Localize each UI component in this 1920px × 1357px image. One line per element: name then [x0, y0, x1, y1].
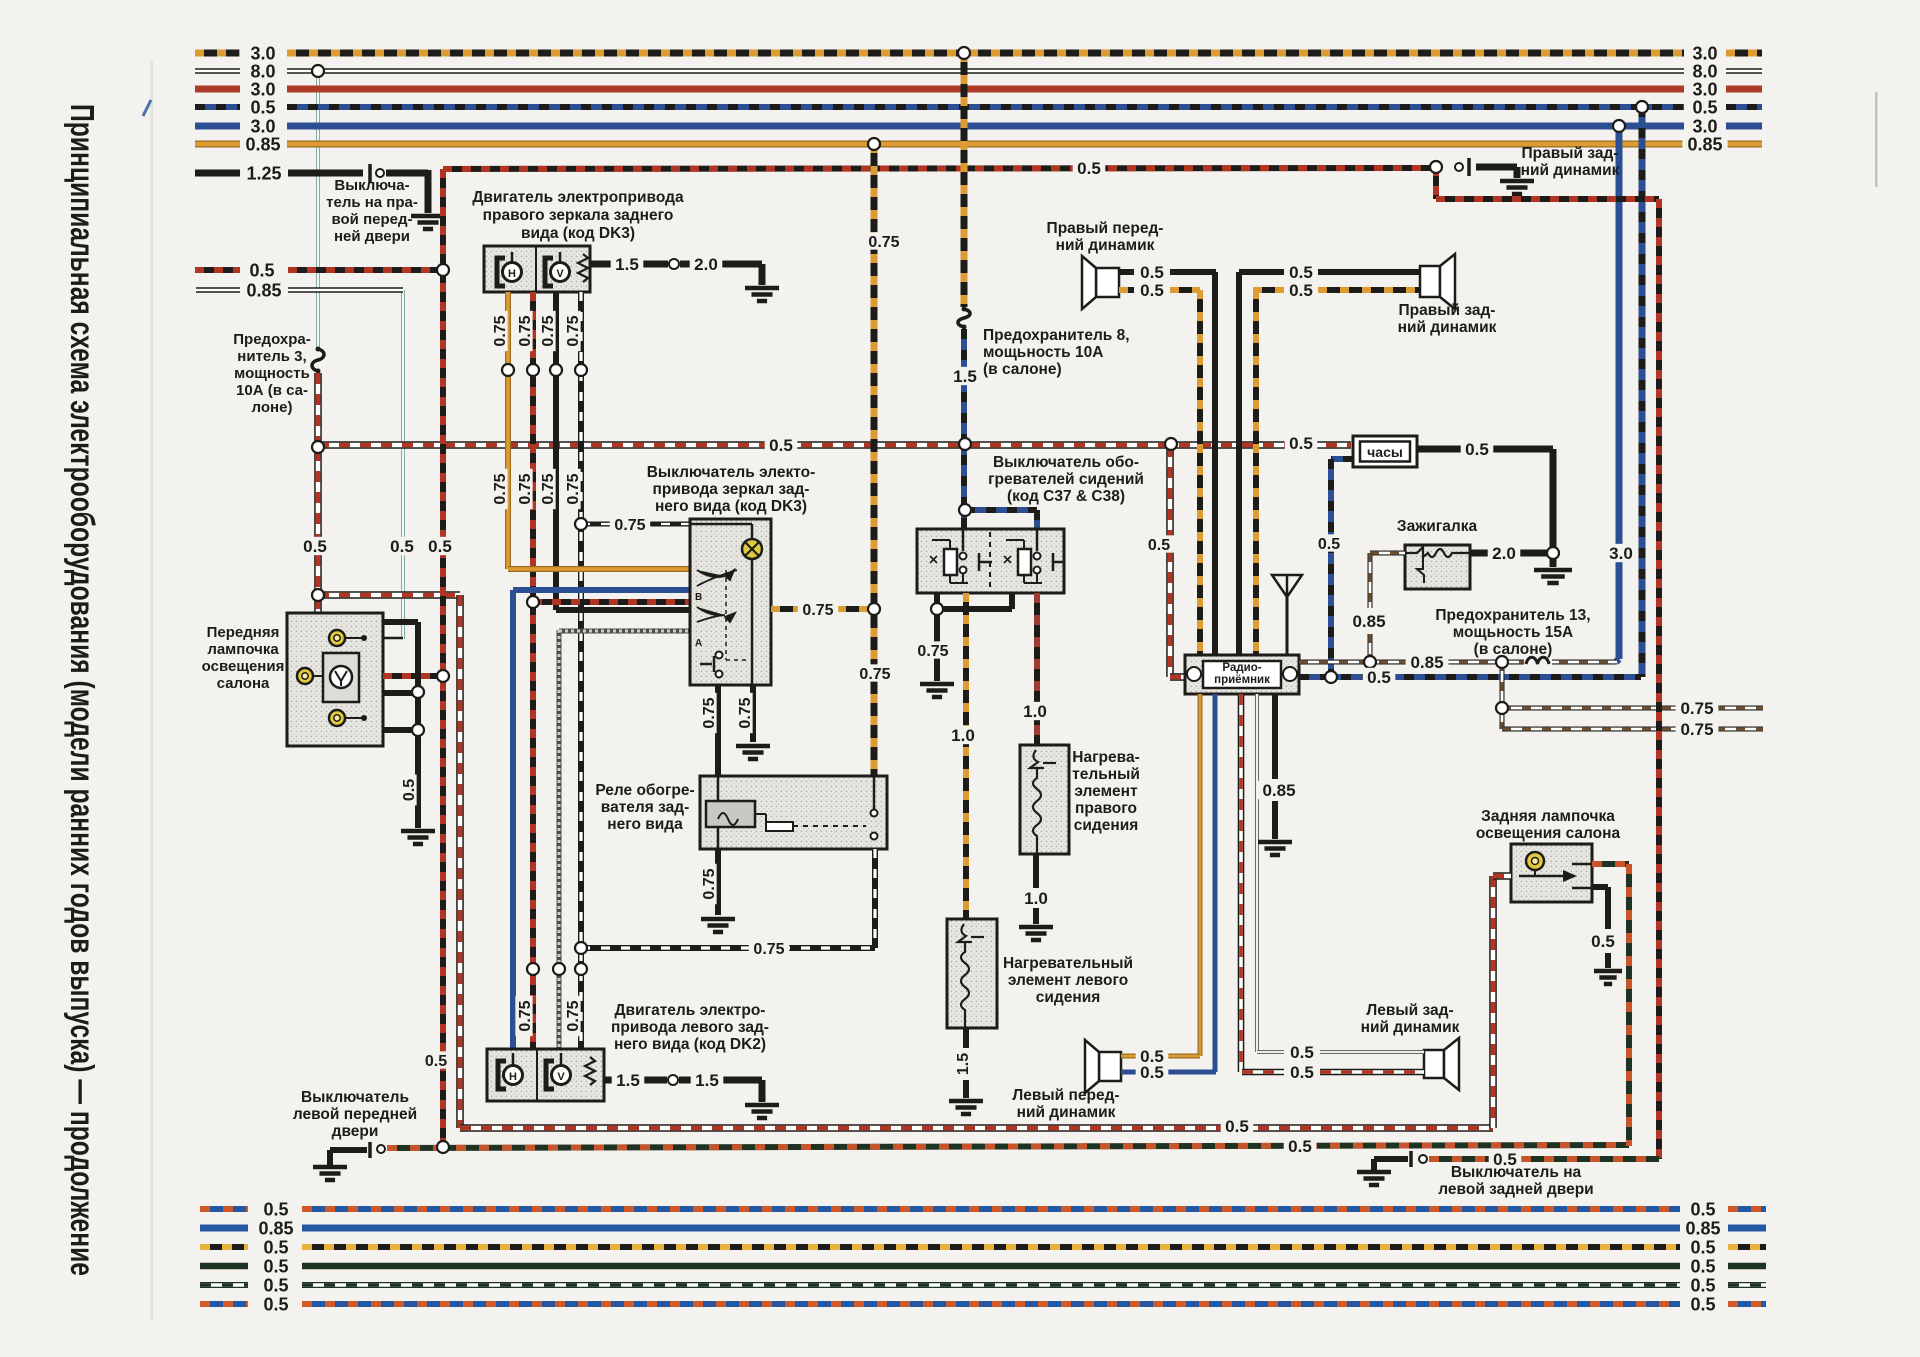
- svg-text:1.5: 1.5: [953, 367, 977, 386]
- svg-text:Принципиальная схема электрооб: Принципиальная схема электрооборудования…: [64, 104, 101, 1276]
- clock: [1353, 436, 1417, 467]
- cigarette lighter: [1405, 545, 1470, 589]
- mirror switch output 0.75: [771, 606, 869, 612]
- svg-text:Правый перед-: Правый перед-: [1047, 220, 1164, 237]
- DK3 output 1.5 / 2.0 to ground: [590, 261, 612, 268]
- svg-text:Зажигалка: Зажигалка: [1397, 518, 1478, 535]
- red/black link down right side: [1433, 167, 1439, 199]
- DK2 output 1.5 / 1.5 to ground: [604, 1077, 614, 1084]
- svg-text:нитель 3,: нитель 3,: [237, 348, 306, 365]
- DK3 red/black vertical: [530, 292, 536, 1049]
- svg-text:мощьность 15А: мощьность 15А: [1453, 624, 1573, 641]
- radio 0.5 blue/black wire: [1299, 674, 1641, 680]
- svg-text:0.5: 0.5: [263, 1199, 288, 1219]
- relay bottom black/white 0.75 loop: [872, 849, 878, 948]
- bus wire 0.85 at y=144: [195, 141, 240, 148]
- svg-text:H: H: [509, 1071, 517, 1083]
- svg-text:1.5: 1.5: [955, 1053, 972, 1075]
- orange/black vertical from 0.85 bus: [871, 144, 878, 776]
- svg-text:1.5: 1.5: [616, 1071, 640, 1090]
- right front speaker: [1096, 268, 1119, 297]
- svg-text:него вида: него вида: [607, 816, 683, 833]
- seat heater switch box C37C38: [917, 529, 1064, 593]
- svg-text:0.5: 0.5: [401, 779, 418, 801]
- svg-text:ний динамик: ний динамик: [1398, 319, 1497, 336]
- bus wire 3.0 at y=126: [195, 123, 240, 130]
- svg-text:0.75: 0.75: [737, 697, 754, 728]
- svg-text:1.0: 1.0: [951, 726, 975, 745]
- svg-text:приёмник: приёмник: [1214, 674, 1270, 686]
- svg-text:привода зеркал зад-: привода зеркал зад-: [653, 481, 810, 498]
- svg-text:Правый зад-: Правый зад-: [1399, 302, 1496, 319]
- svg-text:лоне): лоне): [252, 399, 293, 416]
- svg-text:0.75: 0.75: [540, 473, 557, 504]
- DK3 black/white vertical: [578, 292, 584, 1049]
- svg-text:0.5: 0.5: [249, 260, 274, 280]
- svg-text:0.5: 0.5: [1690, 1294, 1715, 1314]
- svg-text:0.5: 0.5: [1077, 159, 1101, 178]
- svg-text:0.5: 0.5: [1692, 97, 1717, 117]
- bus wire 3.0 at y=53: [195, 50, 240, 57]
- svg-text:0.5: 0.5: [263, 1256, 288, 1276]
- svg-text:Выключатель: Выключатель: [301, 1089, 409, 1106]
- svg-text:0.5: 0.5: [1225, 1117, 1249, 1136]
- front interior lamp box: [287, 613, 383, 746]
- svg-text:0.85: 0.85: [1352, 612, 1385, 631]
- rear lamp input red/white: [1493, 872, 1511, 880]
- svg-text:часы: часы: [1367, 444, 1403, 460]
- svg-text:0.75: 0.75: [1680, 720, 1713, 739]
- svg-text:0.85: 0.85: [1262, 781, 1295, 800]
- svg-text:мощьность 10А: мощьность 10А: [983, 344, 1103, 361]
- svg-text:3.0: 3.0: [1692, 79, 1717, 99]
- red/white vertical up to rear lamp: [1489, 876, 1497, 1128]
- svg-text:1.0: 1.0: [1023, 702, 1047, 721]
- svg-text:0.5: 0.5: [1290, 1043, 1314, 1062]
- svg-text:0.5: 0.5: [1465, 440, 1489, 459]
- svg-text:Реле обогре-: Реле обогре-: [595, 782, 694, 799]
- 0.75 pair to right edge: [1500, 662, 1505, 729]
- svg-text:0.5: 0.5: [1148, 537, 1170, 554]
- svg-text:1.25: 1.25: [246, 163, 281, 183]
- svg-text:ний динамик: ний динамик: [1017, 1104, 1116, 1121]
- switch on right front door: [368, 164, 372, 182]
- svg-text:3.0: 3.0: [250, 79, 275, 99]
- svg-text:0.85: 0.85: [1410, 653, 1443, 672]
- door wire to rear lamp circuit: [387, 1145, 1629, 1148]
- svg-text:сидения: сидения: [1036, 989, 1101, 1006]
- svg-text:Двигатель электро-: Двигатель электро-: [615, 1002, 766, 1019]
- svg-text:0.5: 0.5: [1318, 536, 1340, 553]
- svg-text:него вида (код DK3): него вида (код DK3): [655, 498, 807, 515]
- svg-text:элемент левого: элемент левого: [1008, 972, 1128, 989]
- svg-text:Двигатель электропривода: Двигатель электропривода: [472, 189, 684, 206]
- DK3 black vertical: [553, 292, 559, 610]
- svg-text:10А (в са-: 10А (в са-: [236, 382, 308, 399]
- svg-text:ний динамик: ний динамик: [1056, 237, 1155, 254]
- svg-text:0.5: 0.5: [250, 97, 275, 117]
- svg-text:V: V: [556, 268, 564, 280]
- svg-text:освещения салона: освещения салона: [1476, 825, 1621, 842]
- mirror switch box DK3: [690, 519, 771, 685]
- svg-text:0.85: 0.85: [246, 280, 281, 300]
- svg-text:Выключатель электо-: Выключатель электо-: [647, 464, 816, 481]
- red/black horizontal y169 to right rear door switch: [443, 168, 1436, 169]
- relay to ground: [715, 849, 721, 915]
- svg-text:(код С37 & С38): (код С37 & С38): [1007, 488, 1125, 505]
- svg-text:0.5: 0.5: [1690, 1256, 1715, 1276]
- bottom bus wire 0.5 y=1247: [200, 1244, 248, 1250]
- svg-text:V: V: [557, 1071, 565, 1083]
- svg-text:Левый перед-: Левый перед-: [1012, 1087, 1119, 1104]
- svg-text:тельный: тельный: [1072, 766, 1140, 783]
- svg-text:0.85: 0.85: [245, 134, 280, 154]
- right rear speaker: [1420, 266, 1440, 297]
- svg-text:0.75: 0.75: [802, 602, 833, 619]
- right seat heater element: [1020, 745, 1069, 854]
- svg-text:0.75: 0.75: [753, 941, 784, 958]
- bus wire 0.5 at y=107: [195, 104, 240, 110]
- svg-text:2.0: 2.0: [1492, 544, 1516, 563]
- lamp wires to teal/ground/red-black: [383, 619, 418, 625]
- lighter output 2.0: [1470, 550, 1488, 557]
- svg-text:0.75: 0.75: [701, 868, 718, 899]
- node: junction fuse3 wire / 0.5 horizontal: [314, 450, 322, 592]
- svg-text:ней двери: ней двери: [334, 228, 410, 245]
- blue/black 0.5 vertical from bus: [1639, 107, 1646, 677]
- svg-text:Предохранитель 8,: Предохранитель 8,: [983, 327, 1130, 344]
- left front door switch: [313, 1165, 347, 1170]
- svg-text:0.75: 0.75: [565, 315, 582, 346]
- fuse 3: [312, 349, 324, 371]
- bottom bus wire 0.85 y=1228: [200, 1225, 248, 1232]
- right rear door switch (top): [1467, 158, 1471, 176]
- left rear speaker: [1424, 1050, 1444, 1078]
- svg-text:0.5: 0.5: [1140, 1063, 1164, 1082]
- radio box: [1185, 655, 1299, 694]
- svg-text:0.75: 0.75: [540, 315, 557, 346]
- red/black vertical x443: [440, 169, 446, 1147]
- svg-text:Нагревательный: Нагревательный: [1003, 955, 1133, 972]
- svg-text:0.5: 0.5: [390, 537, 414, 556]
- svg-text:ний динамик: ний динамик: [1361, 1019, 1460, 1036]
- bus wire 8.0 at y=71: [195, 68, 240, 74]
- svg-text:0.5: 0.5: [1690, 1199, 1715, 1219]
- blue/black below fuse 8: [961, 329, 967, 529]
- rear-window heater relay: [700, 776, 887, 849]
- svg-text:0.75: 0.75: [492, 315, 509, 346]
- svg-text:Радио-: Радио-: [1222, 662, 1261, 674]
- bottom bus wire 0.5 y=1285: [200, 1282, 248, 1288]
- radio bottom wires: [1198, 694, 1203, 1056]
- svg-text:тель на пра-: тель на пра-: [326, 194, 418, 211]
- svg-text:H: H: [508, 268, 516, 280]
- svg-text:0.75: 0.75: [517, 315, 534, 346]
- svg-text:сидения: сидения: [1074, 817, 1139, 834]
- wire red/white 0.5 horizontal to clock: [318, 441, 1351, 449]
- svg-text:0.5: 0.5: [303, 537, 327, 556]
- svg-text:8.0: 8.0: [1692, 61, 1717, 81]
- thin wire from 8.0 bus down to fuse 3: [316, 71, 320, 347]
- svg-text:левой задней двери: левой задней двери: [1438, 1181, 1593, 1198]
- svg-text:0.5: 0.5: [1140, 281, 1164, 300]
- svg-text:0.5: 0.5: [1289, 281, 1313, 300]
- svg-text:лампочка: лампочка: [207, 641, 279, 658]
- svg-text:элемент: элемент: [1074, 783, 1138, 800]
- lighter input 0.85 brown/white: [1370, 551, 1405, 556]
- svg-text:0.75: 0.75: [1680, 699, 1713, 718]
- svg-text:Предохранитель 13,: Предохранитель 13,: [1435, 607, 1590, 624]
- yellow/black down to left seat heater: [963, 593, 969, 919]
- svg-text:освещения: освещения: [202, 658, 285, 675]
- svg-text:0.5: 0.5: [263, 1237, 288, 1257]
- svg-text:левой передней: левой передней: [293, 1106, 417, 1123]
- teal 0.85 vertical to front lamp: [401, 290, 405, 639]
- svg-text:0.5: 0.5: [263, 1294, 288, 1314]
- svg-text:0.5: 0.5: [1290, 1063, 1314, 1082]
- svg-text:А: А: [695, 638, 702, 649]
- svg-text:(в салоне): (в салоне): [1474, 641, 1553, 658]
- svg-text:0.5: 0.5: [1289, 434, 1313, 453]
- svg-text:него вида (код DK2): него вида (код DK2): [614, 1036, 766, 1053]
- left rear door switch: [1357, 1170, 1391, 1175]
- svg-text:3.0: 3.0: [1609, 544, 1633, 563]
- svg-text:0.5: 0.5: [263, 1275, 288, 1295]
- svg-text:8.0: 8.0: [250, 61, 275, 81]
- svg-text:Задняя лампочка: Задняя лампочка: [1481, 808, 1615, 825]
- svg-text:вателя зад-: вателя зад-: [601, 799, 689, 816]
- switch left output to ground: [934, 593, 940, 681]
- DK2 motor box: [487, 1049, 604, 1101]
- red/white wire below fuse 3: [314, 373, 322, 444]
- svg-text:(в салоне): (в салоне): [983, 361, 1062, 378]
- wire red/white to front lamp branch: [318, 591, 460, 599]
- clock right 0.5 to ground: [1417, 446, 1462, 453]
- svg-text:правого зеркала заднего: правого зеркала заднего: [483, 207, 674, 224]
- svg-text:0.85: 0.85: [1685, 1218, 1720, 1238]
- svg-text:двери: двери: [332, 1123, 379, 1140]
- svg-text:0.75: 0.75: [517, 1000, 534, 1031]
- red/white horizontal y1128: [460, 1124, 1493, 1132]
- svg-text:0.75: 0.75: [701, 697, 718, 728]
- wire 0.85 white left: [196, 287, 240, 293]
- svg-text:Правый зад-: Правый зад-: [1522, 145, 1619, 162]
- svg-text:0.85: 0.85: [258, 1218, 293, 1238]
- svg-text:0.75: 0.75: [565, 473, 582, 504]
- svg-text:Выключатель обо-: Выключатель обо-: [993, 454, 1139, 471]
- svg-text:Выключатель на: Выключатель на: [1451, 1164, 1582, 1181]
- svg-text:салона: салона: [217, 675, 270, 692]
- svg-text:0.5: 0.5: [769, 436, 793, 455]
- svg-text:1.0: 1.0: [1024, 889, 1048, 908]
- svg-text:1.5: 1.5: [695, 1071, 719, 1090]
- bottom bus wire 0.5 y=1304: [200, 1301, 248, 1307]
- svg-text:0.5: 0.5: [428, 537, 452, 556]
- svg-text:Выключа-: Выключа-: [334, 177, 409, 194]
- svg-text:0.75: 0.75: [868, 234, 899, 251]
- svg-text:0.75: 0.75: [517, 473, 534, 504]
- svg-text:0.5: 0.5: [1690, 1237, 1715, 1257]
- svg-text:1.5: 1.5: [615, 255, 639, 274]
- radio feed verticals: [1197, 290, 1203, 655]
- switch bottom stubs: [715, 685, 721, 776]
- svg-text:0.75: 0.75: [859, 666, 890, 683]
- wire 1.25 black: [195, 170, 240, 177]
- svg-text:0.75: 0.75: [565, 1000, 582, 1031]
- svg-text:Левый зад-: Левый зад-: [1366, 1002, 1453, 1019]
- rear lamp output to ground 0.5: [1592, 884, 1608, 890]
- wire 0.5 red/black left: [195, 267, 240, 273]
- radio 0.85 wire + fuse 13: [1299, 660, 1617, 665]
- red/white vertical to radio: [1166, 446, 1174, 677]
- svg-text:0.5: 0.5: [425, 1053, 447, 1070]
- svg-text:правого: правого: [1075, 800, 1137, 817]
- svg-text:0.75: 0.75: [492, 473, 509, 504]
- svg-text:3.0: 3.0: [1692, 43, 1717, 63]
- svg-text:вида (код DK3): вида (код DK3): [521, 225, 635, 242]
- bottom bus wire 0.5 y=1266: [200, 1263, 248, 1270]
- rear interior lamp: [1511, 844, 1592, 902]
- left seat heater element: [947, 919, 997, 1028]
- bottom bus wire 0.5 y=1209: [200, 1206, 248, 1212]
- clock blue wire down to radio line: [1331, 456, 1353, 462]
- svg-text:В: В: [695, 592, 702, 603]
- svg-text:0.5: 0.5: [1289, 263, 1313, 282]
- svg-text:3.0: 3.0: [250, 116, 275, 136]
- svg-text:Передняя: Передняя: [207, 624, 280, 641]
- red/white vertical x460 down: [456, 595, 464, 1128]
- svg-text:3.0: 3.0: [1692, 116, 1717, 136]
- DK3 motor box: [484, 246, 590, 292]
- svg-text:Нагрева-: Нагрева-: [1072, 749, 1139, 766]
- mirror switch feed wires: [508, 566, 690, 572]
- svg-text:0.5: 0.5: [1367, 668, 1391, 687]
- svg-text:0.85: 0.85: [1687, 134, 1722, 154]
- svg-text:3.0: 3.0: [250, 43, 275, 63]
- rear lamp output to door wire: [1592, 861, 1629, 867]
- svg-text:гревателей сидений: гревателей сидений: [988, 471, 1144, 488]
- antenna: [1272, 575, 1302, 597]
- orange/black vertical from 3.0 bus with fuse 8: [961, 53, 968, 307]
- bus wire 3.0 at y=89: [195, 86, 240, 93]
- svg-text:мощность: мощность: [234, 365, 310, 382]
- svg-text:0.5: 0.5: [1288, 1137, 1312, 1156]
- svg-text:0.5: 0.5: [1591, 932, 1615, 951]
- svg-text:вой перед-: вой перед-: [332, 211, 413, 228]
- svg-text:0.5: 0.5: [1690, 1275, 1715, 1295]
- svg-text:Предохра-: Предохра-: [233, 331, 310, 348]
- svg-text:ний динамик: ний динамик: [1521, 162, 1620, 179]
- left front speaker: [1099, 1052, 1121, 1081]
- dark red down to right seat heater: [1034, 593, 1040, 744]
- svg-text:0.75: 0.75: [614, 517, 645, 534]
- svg-text:0.75: 0.75: [917, 643, 948, 660]
- svg-text:0.5: 0.5: [1140, 263, 1164, 282]
- blue 3.0 vertical from bus: [1616, 126, 1623, 659]
- svg-text:привода левого зад-: привода левого зад-: [611, 1019, 769, 1036]
- DK3 wires down: orange: [505, 292, 511, 569]
- branch to right cell: [965, 507, 1037, 513]
- svg-text:2.0: 2.0: [694, 255, 718, 274]
